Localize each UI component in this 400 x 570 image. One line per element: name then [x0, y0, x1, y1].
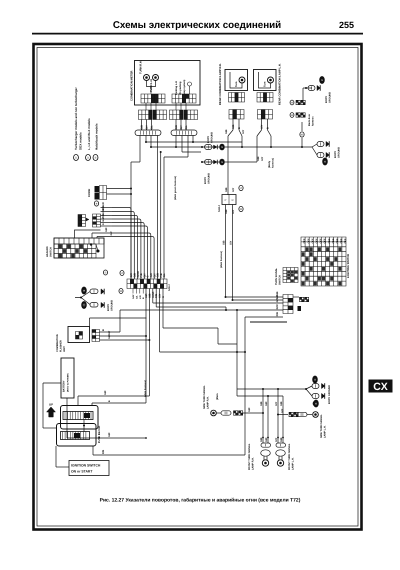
- svg-text:Рис. 12.27 Указатели поворотов: Рис. 12.27 Указатели поворотов, габаритн…: [100, 498, 301, 504]
- svg-text:OFF: OFF: [316, 238, 319, 243]
- lighting connector wires right: [293, 296, 299, 298]
- back door harness connector upper: [296, 100, 298, 102]
- wire run y389: [236, 344, 238, 396]
- diagram inner frame: [37, 48, 358, 527]
- svg-text:⑪: ⑪: [83, 303, 86, 307]
- svg-text:G/Y: G/Y: [261, 156, 264, 161]
- svg-text:S.M.J: S.M.J: [168, 284, 171, 291]
- rear R.H. harness grid: [233, 110, 237, 115]
- wire smj down: [225, 205, 227, 298]
- harness connector grid B: [153, 110, 156, 115]
- svg-text:G/B: G/B: [141, 125, 144, 130]
- svg-text:LAMP L.H.: LAMP L.H.: [292, 457, 295, 470]
- fuse block box upper: [61, 406, 99, 430]
- svg-text:G/R: G/R: [105, 227, 108, 232]
- svg-text:Hatchback models: Hatchback models: [95, 123, 99, 150]
- svg-text:⑦: ⑦: [240, 186, 243, 190]
- svg-text:G/Y: G/Y: [110, 231, 113, 236]
- wire flasher feed loop: [90, 318, 147, 327]
- svg-text:Turn: Turn: [264, 81, 267, 87]
- svg-text:G/Y: G/Y: [275, 401, 278, 406]
- front lamp feeds: [262, 389, 264, 443]
- harness connector grid D: [184, 110, 187, 115]
- svg-text:UP: UP: [49, 403, 53, 407]
- diode symbol mark: [94, 201, 98, 206]
- svg-text:SWITCH: SWITCH: [50, 247, 53, 257]
- svg-text:G/R: G/R: [248, 407, 251, 412]
- smj strip lower labels: [132, 289, 134, 294]
- diagram outer frame: [34, 44, 362, 530]
- svg-text:CX: CX: [373, 381, 388, 393]
- svg-text:G/B: G/B: [223, 240, 226, 245]
- body ground bottom right: [305, 388, 307, 390]
- svg-text:G/R: G/R: [108, 334, 111, 339]
- meter connector grid left: [151, 94, 154, 99]
- svg-text:G/R: G/R: [102, 202, 105, 207]
- svg-text:SWITCH: SWITCH: [279, 275, 282, 285]
- svg-text:P/B: P/B: [276, 312, 279, 316]
- wire back door down: [301, 122, 303, 131]
- svg-text:COMBINATION METER: COMBINATION METER: [130, 71, 134, 101]
- svg-text:G/L: G/L: [135, 295, 138, 299]
- fuse wires right: [91, 403, 93, 406]
- lighting switch connector: [288, 298, 293, 302]
- smj strip symbol: [103, 270, 107, 275]
- svg-text:harness): harness): [272, 158, 275, 168]
- bus wire y147: [182, 146, 312, 148]
- svg-text:⑨: ⑨: [95, 202, 98, 206]
- legend symbol H: [93, 154, 98, 160]
- wire run y396: [237, 395, 283, 397]
- svg-text:G/R: G/R: [265, 401, 268, 406]
- smj strip connector: [130, 279, 133, 284]
- svg-text:lamp system): lamp system): [183, 80, 186, 95]
- battery box: [61, 358, 74, 398]
- svg-text:R/W: R/W: [276, 304, 279, 310]
- hazard switch table: [54, 238, 104, 258]
- svg-text:B: B: [267, 127, 270, 129]
- svg-text:(Main green harness): (Main green harness): [174, 176, 177, 200]
- svg-text:Parking L.H: Parking L.H: [175, 81, 178, 95]
- svg-text:③: ③: [94, 156, 97, 160]
- flasher wires: [100, 331, 121, 333]
- rear combination lamp R.H. box: [225, 70, 248, 91]
- svg-text:OFF: OFF: [324, 238, 327, 243]
- meter wire stubs and labels: [141, 120, 143, 131]
- svg-text:TURN L.H.: TURN L.H.: [150, 78, 153, 92]
- svg-text:FUSE BLOCK: FUSE BLOCK: [98, 425, 101, 443]
- section tab CX: [369, 380, 393, 393]
- rear L.H. harness grid: [261, 110, 265, 115]
- svg-text:LAMP R.H.: LAMP R.H.: [207, 396, 210, 409]
- svg-text:G: G: [102, 223, 105, 225]
- wire bus lower runs: [163, 327, 218, 329]
- svg-text:G/B: G/B: [225, 187, 228, 192]
- svg-text:⑧: ⑧: [240, 207, 243, 211]
- header rule: [32, 33, 363, 35]
- svg-text:G/Y: G/Y: [232, 187, 235, 192]
- svg-text:ON or START: ON or START: [71, 470, 93, 474]
- svg-text:G/Y: G/Y: [242, 129, 245, 134]
- lighting connector side grids: [300, 297, 302, 299]
- svg-text:G/L: G/L: [163, 273, 166, 278]
- svg-text:G/B: G/B: [232, 124, 235, 129]
- svg-text:G/Y: G/Y: [230, 240, 233, 245]
- svg-text:(To parking: (To parking: [179, 81, 182, 95]
- svg-text:Turbocharger models and non tu: Turbocharger models and non turbocharger: [74, 87, 78, 150]
- fuse block box lower: [57, 424, 97, 447]
- svg-text:①: ①: [75, 156, 78, 160]
- svg-text:G/B: G/B: [260, 401, 263, 406]
- rear combination lamp L.H. box: [254, 70, 277, 91]
- meter internal wires: [147, 81, 156, 94]
- wire network below meter: [139, 136, 141, 163]
- oval connector left: [135, 130, 161, 136]
- smj connector box: [222, 195, 236, 205]
- svg-text:G/R: G/R: [104, 390, 107, 395]
- svg-text:G/R: G/R: [108, 432, 111, 437]
- svg-text:E: E: [108, 400, 111, 402]
- svg-text:G/Y: G/Y: [276, 298, 279, 303]
- svg-text:OFF: OFF: [328, 238, 331, 243]
- svg-text:G/B: G/B: [257, 156, 260, 161]
- body ground mid-left chain 2: [202, 161, 257, 163]
- svg-text:P: P: [225, 199, 227, 202]
- svg-text:R: R: [232, 199, 234, 202]
- ignition switch box: [69, 461, 109, 476]
- svg-text:OFF: OFF: [332, 238, 335, 243]
- svg-text:B: B: [102, 329, 105, 331]
- svg-text:GROUND: GROUND: [329, 92, 332, 103]
- svg-text:G/Y: G/Y: [261, 124, 264, 129]
- legend symbol TU: [74, 154, 79, 160]
- svg-text:G/B: G/B: [280, 401, 283, 406]
- svg-text:G/Y: G/Y: [281, 408, 284, 413]
- harness connector grid C: [180, 110, 183, 115]
- hazard connector grid small: [78, 215, 82, 218]
- svg-text:B: B: [238, 127, 241, 129]
- ignition wire: [55, 446, 57, 467]
- battery wire: [66, 398, 68, 438]
- indicator lamp TURN L.H.: [153, 75, 159, 81]
- svg-text:G/B: G/B: [175, 125, 178, 130]
- svg-text:OFF: OFF: [340, 238, 343, 243]
- svg-text:S.M.J: S.M.J: [218, 205, 221, 212]
- svg-text:BODY GROUND: BODY GROUND: [328, 385, 331, 404]
- rear lamp wire stubs: [232, 119, 234, 130]
- connector marker bar: [250, 321, 287, 323]
- fuse strip 2: [61, 432, 90, 440]
- svg-text:G/Y: G/Y: [146, 125, 149, 130]
- svg-text:GROUND: GROUND: [208, 173, 211, 184]
- wire rear L.H. down: [257, 130, 262, 136]
- turn signal switch table: [287, 271, 290, 273]
- svg-text:G/Y: G/Y: [102, 217, 105, 222]
- body ground left chains: [81, 287, 87, 295]
- battery feed wire: [43, 382, 61, 384]
- diode wires: [107, 188, 132, 190]
- svg-text:OFF: OFF: [336, 238, 339, 243]
- flasher connector: [92, 330, 96, 333]
- wires below smj strip: [145, 299, 147, 403]
- svg-text:GROUND: GROUND: [111, 300, 114, 311]
- svg-text:G/Y: G/Y: [180, 125, 183, 130]
- svg-text:GROUND: GROUND: [211, 132, 214, 143]
- body ground top right: [302, 88, 304, 100]
- svg-text:BATTERY: BATTERY: [63, 380, 66, 392]
- svg-text:(Main: (Main: [216, 393, 219, 400]
- lighting switch table: [306, 247, 309, 251]
- hazard fan wires: [101, 207, 113, 209]
- combination flasher unit box: [68, 327, 90, 343]
- svg-text:L/R: L/R: [139, 295, 142, 299]
- svg-text:TURN R.H.: TURN R.H.: [140, 60, 143, 74]
- svg-text:OFF: OFF: [311, 238, 314, 243]
- svg-text:G/B: G/B: [225, 129, 228, 134]
- svg-text:REAR COMBINATION LAMP R.H.: REAR COMBINATION LAMP R.H.: [219, 63, 222, 105]
- back door harness connector lower: [296, 113, 298, 115]
- svg-text:G/Y: G/Y: [108, 330, 111, 335]
- combination meter box: [135, 61, 201, 106]
- oval connector right: [171, 130, 197, 136]
- meter lamp parking: [188, 82, 192, 86]
- svg-text:G/OR: G/OR: [102, 208, 105, 215]
- svg-text:255: 255: [339, 20, 354, 30]
- svg-text:REAR COMBINATION LAMP L.H.: REAR COMBINATION LAMP L.H.: [279, 63, 282, 105]
- svg-text:LIGHTING SWITCH: LIGHTING SWITCH: [347, 254, 350, 278]
- hazard loop wire: [75, 230, 101, 238]
- svg-text:GROUND: GROUND: [338, 147, 341, 158]
- svg-text:SGX models: SGX models: [79, 132, 83, 150]
- wire rear R.H. down: [228, 130, 233, 136]
- svg-text:OFF: OFF: [344, 238, 347, 243]
- svg-text:UNIT: UNIT: [63, 346, 66, 352]
- harness connector grid A: [149, 110, 152, 115]
- diode block: [95, 186, 100, 193]
- svg-text:G: G: [162, 296, 165, 298]
- hazard switch output wires: [91, 233, 93, 238]
- rear L.H. connector grid: [263, 93, 266, 98]
- fuse strip 1: [63, 412, 93, 420]
- svg-text:OFF: OFF: [303, 238, 306, 243]
- svg-text:G/L: G/L: [185, 125, 188, 130]
- svg-text:LAMP L.H.: LAMP L.H.: [324, 425, 327, 438]
- fuse block internal wire: [83, 420, 85, 432]
- svg-text:DIODE: DIODE: [88, 189, 91, 197]
- svg-text:(Main harness): (Main harness): [220, 251, 223, 268]
- meter to harness stub wires: [145, 103, 147, 110]
- svg-text:Схемы электрических соединений: Схемы электрических соединений: [113, 20, 281, 31]
- body ground mid-left chain 1: [201, 146, 203, 148]
- svg-text:G/L: G/L: [151, 125, 154, 130]
- svg-text:(Refer to POWER): (Refer to POWER): [67, 373, 70, 392]
- svg-text:Turn: Turn: [235, 81, 238, 87]
- svg-text:LAMP R.H.: LAMP R.H.: [252, 457, 255, 470]
- hazard connector: [93, 217, 97, 220]
- svg-text:harness: harness: [312, 116, 315, 126]
- meter connector grid right: [182, 94, 185, 99]
- svg-text:OFF: OFF: [307, 238, 310, 243]
- svg-text:⑥: ⑥: [301, 133, 304, 137]
- body ground right chain pair: [312, 144, 317, 155]
- legend symbol L: [86, 154, 91, 160]
- up arrow: [47, 407, 56, 417]
- svg-text:G/W: G/W: [132, 294, 135, 299]
- svg-text:OFF: OFF: [320, 238, 323, 243]
- svg-text:L, LX and BLX models: L, LX and BLX models: [87, 118, 91, 150]
- wire smj to lighting connector: [226, 296, 284, 298]
- svg-text:②: ②: [87, 156, 90, 160]
- svg-text:P/B: P/B: [102, 450, 105, 454]
- svg-text:(Main harness): (Main harness): [144, 380, 147, 397]
- rear R.H. connector grid: [235, 93, 238, 98]
- smj strip symbol lower: [119, 289, 123, 294]
- svg-text:IGNITION SWITCH: IGNITION SWITCH: [71, 464, 101, 468]
